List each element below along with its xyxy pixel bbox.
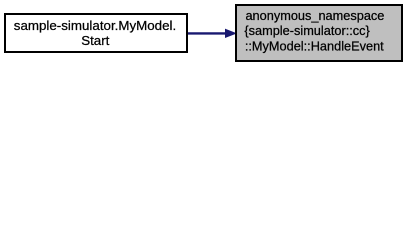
svg-text:anonymous_namespace: anonymous_namespace (245, 8, 384, 23)
svg-text:sample-simulator.MyModel.: sample-simulator.MyModel. (14, 18, 176, 33)
svg-text:Start: Start (81, 33, 109, 48)
node: anonymous_namespace{sample-simulator::cc}::MyModel::HandleEvent (current node, gray) (236, 5, 402, 61)
wire: call edge arrow (188, 29, 236, 37)
svg-text:{sample-simulator::cc}: {sample-simulator::cc} (244, 23, 370, 38)
node: sample-simulator.MyModel.Start (caller box) (5, 14, 187, 52)
svg-text:::MyModel::HandleEvent: ::MyModel::HandleEvent (245, 38, 384, 53)
